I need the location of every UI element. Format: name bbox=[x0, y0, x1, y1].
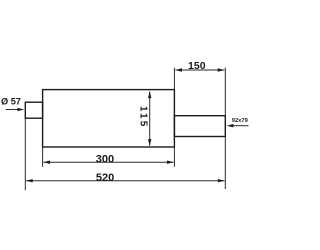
svg-text:520: 520 bbox=[96, 172, 114, 184]
leader arrow for 92x79 bbox=[233, 125, 249, 127]
svg-text:115: 115 bbox=[138, 106, 149, 129]
extension line below body left edge for 300 bbox=[42, 147, 44, 167]
arrowhead 300 left bbox=[43, 161, 50, 164]
svg-text:92x79: 92x79 bbox=[232, 118, 249, 124]
dimension line 115 bbox=[149, 92, 151, 146]
extension line left of 520 (inlet pipe left edge extended) bbox=[24, 119, 26, 191]
svg-text:300: 300 bbox=[96, 153, 114, 165]
inlet pipe bbox=[25, 102, 42, 118]
arrowhead 520 left bbox=[26, 179, 33, 182]
extension line below outlet pipe end for 520 bbox=[224, 137, 226, 190]
leader arrow for diameter 57 bbox=[6, 109, 18, 111]
svg-text:150: 150 bbox=[188, 60, 206, 72]
outlet pipe bbox=[174, 116, 225, 137]
extension line below body right edge for 300 bbox=[173, 147, 175, 167]
arrowhead 520 right bbox=[218, 179, 225, 182]
muffler body outline bbox=[43, 90, 175, 147]
arrowhead 150 right bbox=[218, 68, 225, 71]
dimension line 300 bbox=[43, 161, 173, 163]
svg-text:Ø 57: Ø 57 bbox=[1, 97, 21, 107]
arrowhead diameter 57 bbox=[17, 108, 24, 111]
dimension line 520 bbox=[26, 180, 224, 182]
arrowhead 92x79 bbox=[227, 124, 234, 127]
extension line above body right edge for 150 bbox=[173, 68, 175, 90]
arrowhead 300 right bbox=[167, 161, 174, 164]
arrowhead 115 bottom bbox=[148, 139, 151, 146]
dimension line 150 bbox=[175, 69, 224, 71]
arrowhead 115 top bbox=[148, 91, 151, 98]
extension line above outlet pipe end for 150 bbox=[224, 68, 226, 116]
arrowhead 150 left bbox=[175, 68, 182, 71]
